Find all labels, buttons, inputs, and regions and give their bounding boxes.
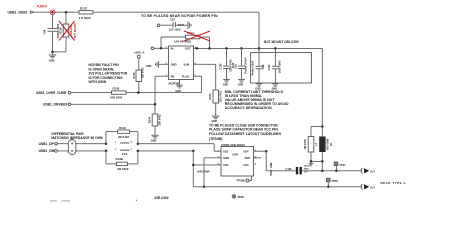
svg-text:C63: C63 [234,64,238,69]
wire shield A with capacitor C181 [266,166,362,175]
label 33R 0402 [50,200,57,202]
svg-text:EN: EN [171,74,175,78]
ground under IC [175,80,182,94]
junction [240,47,243,50]
capacitor C172 [234,48,248,86]
junction [65,11,68,14]
svg-text:TO BE PLACED NEAR NCP380 POWER: TO BE PLACED NEAR NCP380 POWER PIN [141,14,218,18]
connector CONN USB-5904A [218,143,257,176]
svg-text:0R 0402: 0R 0402 [118,135,129,139]
svg-text:+3V3_A: +3V3_A [134,50,146,54]
node USB1_DRVBUS [43,103,155,107]
wire [126,92,202,94]
svg-text:100nF: 100nF [304,166,311,168]
junction [105,150,108,153]
svg-text:10uF 0805: 10uF 0805 [278,60,282,73]
svg-text:Prelim 100nF: Prelim 100nF [243,57,247,74]
junction [225,47,228,50]
svg-text:R144: R144 [147,116,151,123]
resistor R141 [208,90,222,116]
svg-text:Prelim 10uF: Prelim 10uF [251,60,255,75]
svg-text:GND: GND [151,138,157,142]
ground [212,116,220,123]
svg-text:I/O2: I/O2 [223,163,228,167]
svg-text:ACCURACY DEGRADATION.: ACCURACY DEGRADATION. [225,106,273,110]
svg-text:1K4 0R 0603: 1K4 0R 0603 [174,39,191,43]
wire GND pin [203,158,221,188]
resistor R143 [106,151,138,171]
svg-text:GND: GND [223,84,229,87]
svg-text:USB1_DRVBUS: USB1_DRVBUS [43,103,68,107]
svg-text:1uF 100V: 1uF 100V [169,27,181,31]
svg-text:GND: GND [238,84,244,87]
test point TP17 [334,162,346,171]
svg-text:USB1_OVER_CURR: USB1_OVER_CURR [36,91,67,95]
junction [137,142,140,145]
junction [335,170,338,173]
svg-text:FL8: FL8 [122,152,127,156]
wire VDD stub [254,157,262,159]
junction [137,150,140,153]
wire [34,11,51,13]
svg-text:GND: GND [223,156,229,160]
svg-text:600 OHM: 600 OHM [325,139,329,150]
svg-text:TP20: TP20 [237,195,244,199]
node USB1_OVER_CURR [36,91,112,95]
wire DM branch [138,150,221,187]
test point TP18 [327,178,339,188]
svg-text:I/O1: I/O1 [223,149,228,153]
wire [55,11,79,13]
svg-text:PW2_USB: PW2_USB [269,162,273,175]
svg-text:OUT: OUT [185,47,191,51]
wire EN [154,76,169,114]
node USB1_VBUS [8,11,34,15]
svg-text:I/O4: I/O4 [244,149,249,153]
note NCP380 fault pin [89,63,128,84]
ground [49,52,57,63]
svg-text:10K 0402: 10K 0402 [110,95,123,99]
svg-text:IC84: IC84 [233,153,239,157]
svg-text:USB1_DP: USB1_DP [39,142,55,146]
svg-text:NOT MOUNT C88-C350: NOT MOUNT C88-C350 [264,40,299,44]
node USB1_DM [39,149,106,153]
junction [321,170,324,173]
connector pin VL7 top [361,168,375,174]
note current limit [225,90,289,110]
svg-text:4.96V: 4.96V [37,3,48,8]
svg-text:GND: GND [49,59,55,63]
svg-text:0805: 0805 [304,169,310,171]
resistor R138 [110,86,126,99]
svg-text:VL7: VL7 [370,185,375,189]
svg-text:1K0 0402: 1K0 0402 [218,90,222,102]
ground rotated [175,21,191,29]
wire DP to connector [138,144,221,152]
svg-text:ILIM: ILIM [184,62,190,66]
svg-text:WITH U50N: WITH U50N [89,80,107,84]
svg-text:1M 100K: 1M 100K [303,139,307,150]
junction [274,47,277,50]
capacitor C96 [42,15,60,52]
node USB1_DP [39,142,106,146]
capacitor C174 [157,17,185,31]
capacitor C350 [267,48,282,90]
svg-text:GND: GND [212,119,218,123]
ground flag at GND pin [146,61,169,68]
svg-text:C88: C88 [261,64,265,69]
svg-text:NOT MOUNT: NOT MOUNT [73,22,77,38]
test point TP20 [232,195,244,199]
junction [137,91,140,94]
svg-text:R141: R141 [208,93,212,100]
ferrite FL8 [115,141,133,157]
capacitor C88 [251,48,265,90]
svg-text:FLAG: FLAG [182,74,189,78]
svg-text:R136: R136 [58,27,62,34]
note differential pair [51,132,103,140]
connector pin VL7 bottom [361,184,375,190]
wire [258,12,260,48]
svg-text:TP18: TP18 [332,179,339,183]
box not mount [251,53,312,83]
svg-text:MATCHING IMPEDANCE 90 OHM: MATCHING IMPEDANCE 90 OHM [51,136,103,140]
svg-text:C181: C181 [218,63,222,70]
svg-text:0R 0402: 0R 0402 [118,167,129,171]
svg-text:C350: C350 [267,64,271,71]
junction [105,142,108,145]
svg-text:FOLLOW DATASHEET LAYOUT GUIDEL: FOLLOW DATASHEET LAYOUT GUIDELINES [209,132,282,136]
node +3V3_A [134,50,146,70]
capacitor C171 [218,48,235,86]
svg-text:(TES4B).: (TES4B). [209,137,223,141]
node IN stub [151,47,168,50]
differential pair symbol [68,140,76,155]
resistor R139 [133,67,145,93]
wire FLAG [194,76,202,92]
wire OUT net [194,47,323,49]
svg-text:1K: 1K [329,143,333,146]
note close usb connector [209,124,282,141]
test pad TPU28 [236,176,251,183]
svg-text:NCP380: NCP380 [169,81,181,85]
junction [208,47,211,50]
wire OUT down [321,48,323,128]
wire I/O4 [254,150,268,171]
ground [151,135,159,142]
svg-text:R138: R138 [113,86,120,90]
svg-text:GND: GND [146,65,152,68]
svg-text:R13B: R13B [116,157,123,161]
svg-text:VL7: VL7 [370,169,375,173]
svg-text:VDD: VDD [245,156,251,160]
svg-text:USB1_DM: USB1_DM [39,149,55,153]
svg-text:C181: C181 [286,167,293,171]
svg-text:10K 0402: 10K 0402 [158,114,162,126]
op-amp U? NCP380 [166,46,197,85]
svg-text:TPU28: TPU28 [236,179,245,183]
svg-text:TP17: TP17 [339,163,346,167]
svg-text:REAR TYPE A: REAR TYPE A [381,181,407,185]
resistor R137 [79,7,94,20]
resistor R144 [147,114,161,135]
wire shield B [193,186,362,188]
svg-text:USB1_VBUS: USB1_VBUS [8,11,29,15]
svg-text:R139: R139 [133,72,136,79]
resistor R210 not mounted [161,31,210,48]
svg-text:10K 0402: 10K 0402 [142,67,145,78]
ferrite network L7 [303,125,333,171]
junction [258,47,261,50]
svg-text:C96: C96 [42,29,46,34]
resistor R136 not mounted [53,12,77,52]
svg-text:I/O3: I/O3 [244,163,249,167]
junction [51,51,54,54]
svg-text:R137: R137 [80,7,88,11]
svg-text:1 K 0402: 1 K 0402 [79,16,92,20]
svg-text:C97: C97 [170,17,175,21]
test point 4.96V [37,3,55,14]
wire [93,11,259,13]
wire ILIM [194,64,216,90]
svg-text:33R 0402: 33R 0402 [154,196,168,200]
svg-text:IN: IN [171,47,174,51]
resistor R142 [106,126,138,144]
svg-text:GND: GND [171,62,177,66]
